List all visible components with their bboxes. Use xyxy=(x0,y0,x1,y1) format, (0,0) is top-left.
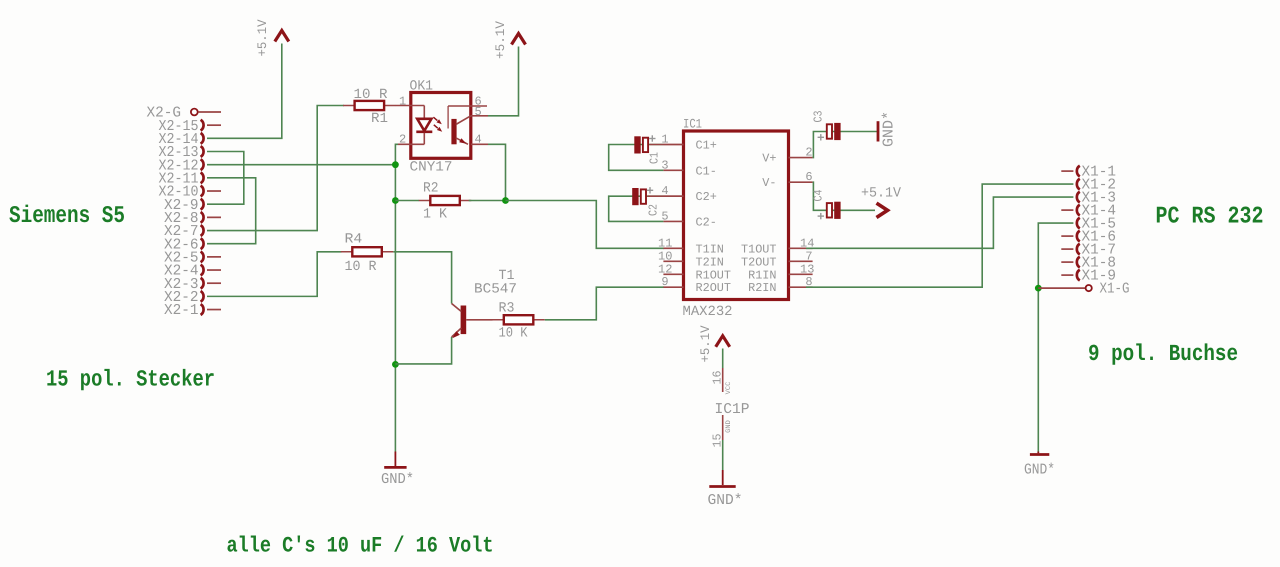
connector pin X1-3 xyxy=(1077,190,1116,207)
svg-text:Siemens S5: Siemens S5 xyxy=(9,203,125,230)
capacitor C4 xyxy=(812,182,876,219)
svg-text:T2OUT: T2OUT xyxy=(741,255,777,269)
label PC RS 232 xyxy=(1156,204,1264,231)
IC1 pin 2 V+ xyxy=(762,146,812,166)
svg-text:C2-: C2- xyxy=(696,215,717,229)
svg-text:GND*: GND* xyxy=(381,471,414,488)
svg-text:X1-G: X1-G xyxy=(1100,281,1130,298)
connector pin X2-12 xyxy=(159,157,204,174)
wire X2-14 to +5.1V rail xyxy=(207,44,282,139)
wire X2-13 to X2-9 xyxy=(207,152,244,205)
svg-text:PC RS 232: PC RS 232 xyxy=(1156,204,1264,231)
capacitor C3 xyxy=(812,111,878,158)
svg-text:13: 13 xyxy=(800,262,814,276)
svg-text:R2IN: R2IN xyxy=(748,281,776,295)
IC1 pin 9 R2OUT xyxy=(661,275,731,295)
ground GND* (top right) xyxy=(878,111,898,147)
label Siemens S5 xyxy=(9,203,125,230)
svg-text:alle C's 10 uF / 16 Volt: alle C's 10 uF / 16 Volt xyxy=(227,534,494,559)
IC1 pin 4 C2+ xyxy=(661,184,716,204)
connector pin X2-6 xyxy=(164,236,204,253)
svg-text:C1: C1 xyxy=(648,152,662,164)
IC1 pin 5 C2- xyxy=(661,209,716,229)
connector pin X1-6 xyxy=(1061,229,1116,246)
IC1 pin 14 T1OUT xyxy=(741,236,814,256)
connector pin X2-7 xyxy=(164,223,204,240)
svg-text:10 R: 10 R xyxy=(345,259,378,275)
connector pin X2-2 xyxy=(164,289,204,306)
svg-text:+5.1V: +5.1V xyxy=(698,325,713,362)
svg-text:9 pol. Buchse: 9 pol. Buchse xyxy=(1088,341,1238,367)
svg-text:CNY17: CNY17 xyxy=(410,160,453,176)
IC1 pin 6 V- xyxy=(762,170,812,190)
IC1 pin 3 C1- xyxy=(661,158,716,178)
IC1P pin 15 GND xyxy=(711,415,734,470)
svg-text:15 pol. Stecker: 15 pol. Stecker xyxy=(46,367,215,393)
wire X1-5 to ground rail xyxy=(1038,223,1073,451)
svg-text:BC547: BC547 xyxy=(474,282,517,298)
resistor R3 xyxy=(492,301,545,342)
wire T1OUT to X1-3 xyxy=(806,197,1073,248)
svg-text:T1IN: T1IN xyxy=(696,242,724,256)
connector pin X2-G xyxy=(147,105,222,122)
svg-text:GND*: GND* xyxy=(708,492,743,509)
wire node B to R2 xyxy=(395,200,419,202)
svg-text:R4: R4 xyxy=(345,232,363,248)
wire node D to T1IN xyxy=(506,201,665,249)
svg-text:V-: V- xyxy=(762,176,776,190)
svg-text:X2-1: X2-1 xyxy=(164,302,199,319)
wire X2-11 to X2-6 xyxy=(207,178,256,244)
IC1 pin 8 R2IN xyxy=(748,275,813,295)
wire R2IN to X1-2 xyxy=(806,184,1073,287)
svg-text:IC1: IC1 xyxy=(683,117,702,132)
connector pin X2-3 xyxy=(164,276,221,293)
svg-text:10 R: 10 R xyxy=(354,87,389,103)
svg-text:16: 16 xyxy=(711,371,725,385)
connector pin X2-15 xyxy=(159,118,222,135)
svg-text:C1+: C1+ xyxy=(696,139,717,153)
svg-text:5: 5 xyxy=(475,105,482,119)
wire OK1 pin2 down to ground rail xyxy=(395,144,398,451)
connector pin X1-5 xyxy=(1077,216,1116,233)
IC1P pin 16 VCC with +5.1V xyxy=(698,325,733,394)
IC1 pin 13 R1IN xyxy=(748,262,814,282)
wire X1-G to node E xyxy=(1038,287,1085,289)
wire R4 to T1 collector xyxy=(393,252,451,304)
connector pin X2-4 xyxy=(164,263,221,280)
connector pin X2-8 xyxy=(164,210,221,227)
wire R2 to node D xyxy=(469,200,506,202)
svg-text:6: 6 xyxy=(805,170,812,184)
svg-text:MAX232: MAX232 xyxy=(683,304,733,320)
connector pin X2-13 xyxy=(159,144,204,161)
ground GND* (bottom right) xyxy=(1024,452,1055,479)
svg-text:R1OUT: R1OUT xyxy=(696,268,732,282)
svg-text:GND*: GND* xyxy=(1024,462,1055,479)
connector pin X2-11 xyxy=(159,170,204,187)
svg-text:C2+: C2+ xyxy=(696,190,717,204)
connector pin X1-4 xyxy=(1061,203,1116,220)
IC U1 MAX232 body xyxy=(683,117,789,321)
node D junction xyxy=(502,197,509,204)
svg-text:R1IN: R1IN xyxy=(748,268,776,282)
connector pin X2-5 xyxy=(164,249,221,266)
wire T1 emitter to node C xyxy=(395,337,451,364)
connector pin X2-9 xyxy=(164,197,204,214)
svg-text:T1OUT: T1OUT xyxy=(741,242,777,256)
connector pin X2-14 xyxy=(159,131,204,148)
svg-text:1 K: 1 K xyxy=(423,207,448,223)
IC1 pin 11 T1IN xyxy=(658,236,724,256)
svg-text:OK1: OK1 xyxy=(410,79,434,95)
svg-text:+5.1V: +5.1V xyxy=(255,19,270,56)
connector pin X1-2 xyxy=(1077,177,1116,194)
svg-text:GND: GND xyxy=(725,420,733,433)
svg-text:4: 4 xyxy=(475,133,482,147)
wire OK1 pin4 to node D xyxy=(488,144,506,200)
capacitor C1 xyxy=(609,135,684,170)
IC1 pin 1 C1+ xyxy=(661,133,716,153)
ground GND* (left) xyxy=(381,452,414,489)
svg-text:15: 15 xyxy=(711,434,725,448)
svg-text:7: 7 xyxy=(805,249,812,263)
svg-text:T2IN: T2IN xyxy=(696,255,724,269)
node C junction xyxy=(392,361,399,368)
svg-text:1: 1 xyxy=(399,94,406,108)
wire R3 to R2OUT xyxy=(545,287,664,320)
power +5.1V (above OK1) xyxy=(493,21,526,59)
IC1 pin 12 R1OUT xyxy=(658,262,731,282)
svg-text:10: 10 xyxy=(658,249,672,263)
label 9 pol. Buchse xyxy=(1088,341,1238,367)
connector pin X1-G xyxy=(1086,281,1130,298)
svg-text:2: 2 xyxy=(805,146,812,160)
connector pin X2-1 xyxy=(164,302,221,319)
IC1P label xyxy=(715,401,750,418)
op-to coupler OK1 CNY17 xyxy=(396,79,489,176)
wire X2-12 to node A xyxy=(207,164,395,166)
connector pin X1-8 xyxy=(1061,255,1116,272)
svg-text:10 K: 10 K xyxy=(499,326,529,342)
svg-text:+5.1V: +5.1V xyxy=(493,21,508,59)
svg-text:R3: R3 xyxy=(499,301,515,317)
svg-text:C1-: C1- xyxy=(696,164,717,178)
label alle C's xyxy=(227,534,494,559)
connector pin X1-9 xyxy=(1061,268,1116,285)
svg-text:2: 2 xyxy=(399,133,406,147)
wire OK1 pin5 to +5.1V xyxy=(488,47,519,116)
IC1 pin 10 T2IN xyxy=(658,249,724,269)
node E junction xyxy=(1035,285,1042,292)
label 15 pol. Stecker xyxy=(46,367,215,393)
node A junction xyxy=(392,161,399,168)
ground GND* (center) xyxy=(708,470,743,509)
power +5.1V (left) xyxy=(255,19,289,56)
svg-text:IC1P: IC1P xyxy=(715,401,750,418)
wire X2-2 to R4 xyxy=(207,252,342,297)
node B junction xyxy=(392,197,399,204)
svg-text:12: 12 xyxy=(658,262,672,276)
svg-text:V+: V+ xyxy=(762,152,776,166)
svg-text:11: 11 xyxy=(658,236,672,250)
capacitor C2 xyxy=(609,187,684,221)
wire X2-7 to R1 xyxy=(207,106,344,231)
svg-text:R2OUT: R2OUT xyxy=(696,281,732,295)
svg-text:GND*: GND* xyxy=(881,111,898,147)
svg-text:C4: C4 xyxy=(812,190,826,202)
svg-text:R2: R2 xyxy=(423,181,439,197)
svg-text:R1: R1 xyxy=(371,111,388,127)
resistor R4 xyxy=(341,232,394,276)
svg-text:+5.1V: +5.1V xyxy=(861,186,902,202)
resistor R2 xyxy=(419,181,472,223)
IC1 pin 7 T2OUT xyxy=(741,249,813,269)
power +5.1V (right of C4) xyxy=(861,186,902,218)
svg-text:C2: C2 xyxy=(647,204,661,216)
connector pin X2-10 xyxy=(159,184,222,201)
resistor R1 xyxy=(343,87,396,127)
svg-text:9: 9 xyxy=(661,275,668,289)
transistor T1 BC547 xyxy=(452,268,517,338)
svg-text:VCC: VCC xyxy=(725,382,733,395)
connector pin X1-7 xyxy=(1061,242,1116,259)
svg-text:C3: C3 xyxy=(812,111,826,123)
connector pin X1-1 xyxy=(1061,164,1116,181)
